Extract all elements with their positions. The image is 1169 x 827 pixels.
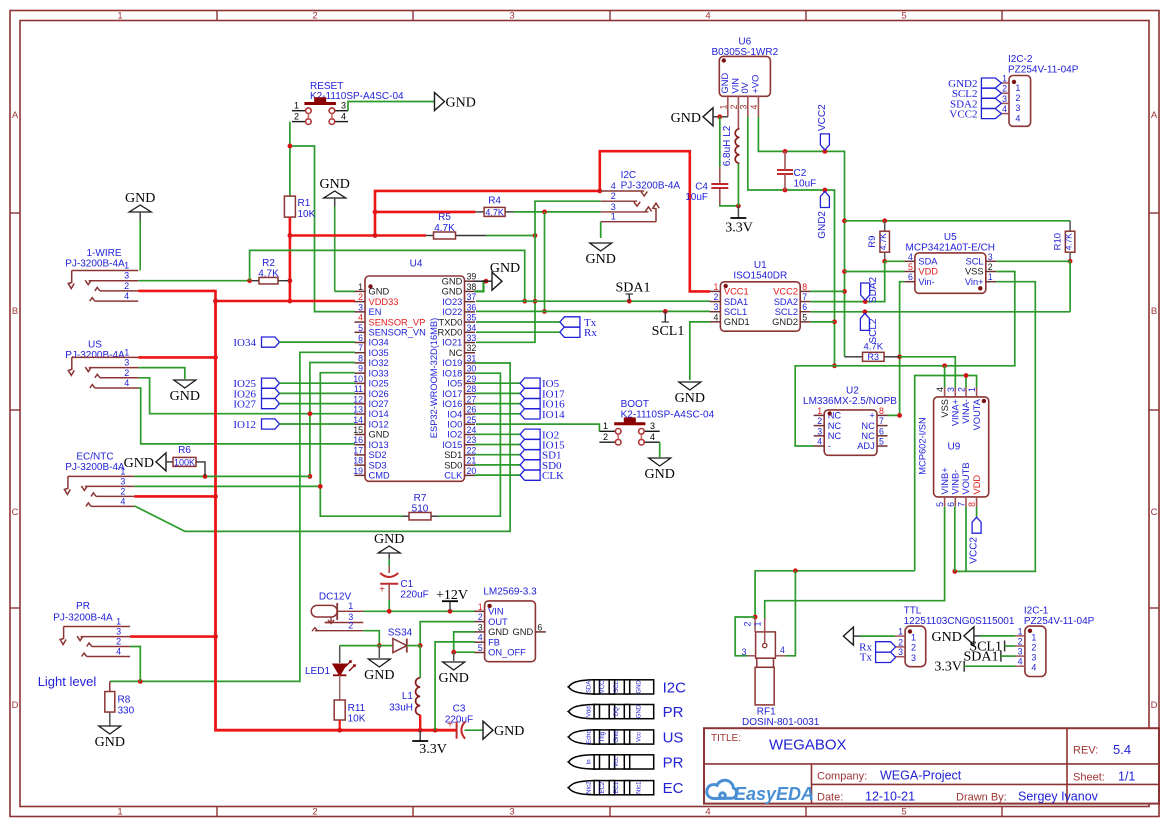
wire BOOT pin4 to GND: [659, 442, 661, 457]
wire SDA2 net: [811, 261, 885, 304]
svg-text:R7: R7: [414, 493, 427, 504]
svg-text:5: 5: [478, 643, 483, 653]
svg-text:U6: U6: [738, 37, 751, 48]
wire RXD0: [476, 331, 560, 333]
svg-text:MCP602-I/SN: MCP602-I/SN: [918, 417, 928, 474]
ground below U1: [675, 382, 705, 406]
wire RESET pin3 to GND: [348, 102, 435, 111]
net port IO16: [475, 398, 566, 410]
net port IO26: [233, 388, 355, 400]
cable plug EC: [568, 780, 683, 797]
svg-text:GND: GND: [645, 467, 675, 482]
wire VOUTA to VINA- feedback: [915, 373, 977, 571]
svg-text:2: 2: [743, 621, 753, 626]
svg-text:4: 4: [705, 807, 710, 818]
capacitor C1 220uF: [379, 566, 429, 611]
svg-text:Drawn By:: Drawn By:: [956, 792, 1007, 804]
ground flag right of C3: [483, 721, 524, 739]
svg-text:PR: PR: [663, 754, 684, 771]
wire IO33 / EC pin3 / R7: [134, 373, 403, 517]
svg-text:BOOT: BOOT: [621, 399, 649, 410]
svg-text:IO32: IO32: [369, 358, 389, 368]
svg-text:SS34: SS34: [388, 628, 413, 639]
svg-text:3: 3: [911, 653, 916, 663]
svg-text:SENSOR_VP: SENSOR_VP: [369, 317, 426, 327]
svg-text:10K: 10K: [298, 209, 316, 220]
svg-text:4.7K: 4.7K: [485, 207, 504, 217]
wire IO32 / US pin2 / EC pin1: [138, 363, 355, 479]
svg-text:5: 5: [935, 502, 945, 507]
svg-text:GND: GND: [720, 73, 730, 94]
svg-text:VDD: VDD: [972, 475, 982, 495]
svg-text:ADJ: ADJ: [857, 441, 875, 451]
svg-text:SCL: SCL: [966, 257, 984, 267]
wire VCC2 rail: [845, 218, 1071, 223]
diode SS34: [388, 628, 420, 653]
svg-text:Vin-: Vin-: [918, 277, 934, 287]
svg-text:3: 3: [478, 622, 483, 632]
svg-text:9: 9: [358, 364, 363, 374]
svg-text:GND: GND: [374, 532, 404, 547]
inductor L2 6.8uH: [722, 117, 740, 206]
svg-text:4.7K: 4.7K: [434, 223, 455, 234]
svg-text:4: 4: [358, 313, 363, 323]
net port Rx: [560, 327, 597, 339]
connector TTL 12251103CNG0S115001: [895, 606, 1015, 667]
svg-text:Trig: Trig: [600, 732, 606, 742]
svg-text:D: D: [12, 700, 19, 711]
connector US PJ-3200B-4A: [65, 340, 138, 389]
net flag SDA2: [861, 277, 879, 304]
net flag GND2: [817, 192, 830, 239]
svg-text:R9: R9: [867, 236, 878, 248]
svg-text:IO5: IO5: [447, 379, 462, 389]
svg-text:8: 8: [967, 502, 977, 507]
net label SDA1 at I2C-1: [963, 650, 1015, 665]
svg-text:3: 3: [509, 11, 514, 22]
capacitor C3 220uF: [445, 704, 483, 739]
svg-text:PJ-3200B-4A: PJ-3200B-4A: [65, 462, 125, 473]
svg-text:In: In: [587, 759, 593, 764]
svg-text:2: 2: [1031, 642, 1036, 652]
svg-text:IO21: IO21: [442, 338, 462, 348]
resistor R7 510: [403, 493, 438, 520]
svg-text:SCL: SCL: [614, 680, 620, 692]
svg-text:NC: NC: [861, 431, 875, 441]
svg-text:GND: GND: [124, 456, 154, 471]
svg-text:PZ254V-11-04P: PZ254V-11-04P: [1008, 65, 1079, 76]
svg-text:IO18: IO18: [442, 368, 462, 378]
svg-text:-: -: [828, 441, 831, 451]
svg-text:2: 2: [1018, 637, 1023, 647]
svg-text:4: 4: [749, 104, 759, 109]
svg-text:Tx: Tx: [860, 652, 873, 664]
svg-text:2: 2: [713, 292, 718, 302]
svg-text:2: 2: [116, 637, 121, 647]
svg-text:SDA2: SDA2: [868, 277, 879, 304]
svg-text:2: 2: [294, 112, 299, 122]
svg-text:IO27: IO27: [233, 399, 256, 411]
svg-text:2: 2: [1015, 93, 1020, 103]
svg-text:SD2: SD2: [369, 450, 387, 460]
wire 3.3V trunk (red): [213, 301, 457, 733]
svg-text:2: 2: [957, 387, 967, 392]
svg-text:TITLE:: TITLE:: [711, 733, 741, 744]
svg-text:IO13: IO13: [369, 440, 389, 450]
wire U4 pin1 GND: [335, 290, 355, 292]
svg-text:SDA1: SDA1: [963, 650, 998, 665]
svg-text:Ntc1: Ntc1: [636, 781, 642, 794]
svg-text:4: 4: [650, 432, 655, 442]
svg-text:C3: C3: [453, 704, 466, 715]
net label SDA1: [615, 281, 650, 302]
svg-text:Light level: Light level: [38, 674, 97, 689]
svg-text:1: 1: [348, 601, 353, 611]
svg-text:4.7K: 4.7K: [1065, 233, 1074, 250]
svg-text:1: 1: [1031, 632, 1036, 642]
wire GND/ON_OFF of LM2569: [451, 632, 474, 661]
svg-text:L1: L1: [402, 691, 414, 702]
svg-text:TXD0: TXD0: [439, 317, 463, 327]
svg-text:1: 1: [817, 406, 822, 416]
svg-text:Date:: Date:: [817, 792, 843, 804]
svg-text:U9: U9: [948, 442, 961, 453]
svg-text:Vdd: Vdd: [587, 706, 593, 717]
svg-text:3: 3: [742, 647, 747, 657]
svg-text:2: 2: [124, 281, 129, 291]
svg-text:I2C: I2C: [621, 170, 637, 181]
svg-text:Vcc: Vcc: [636, 732, 642, 742]
wire U4 pin39 to GND: [475, 280, 493, 282]
svg-text:LM2569-3.3: LM2569-3.3: [483, 587, 537, 598]
svg-text:EC/NTC: EC/NTC: [76, 452, 113, 463]
svg-text:IO34: IO34: [233, 337, 256, 349]
svg-text:SCL1: SCL1: [652, 324, 685, 339]
wire SDA to U5: [885, 260, 905, 262]
svg-text:GND: GND: [636, 704, 642, 718]
svg-text:IO19: IO19: [442, 358, 462, 368]
net flag VCC2 (top): [817, 104, 830, 150]
svg-text:CMD: CMD: [369, 471, 390, 481]
wire LED branch: [340, 646, 380, 663]
wire OUT to switch node: [418, 622, 475, 648]
svg-text:C2: C2: [794, 168, 807, 179]
svg-text:IO0: IO0: [447, 419, 462, 429]
svg-text:SD1: SD1: [444, 450, 462, 460]
svg-text:5.4: 5.4: [1113, 742, 1131, 757]
push button RESET (K2-1110SP-A4SC-04): [292, 81, 404, 124]
net port Rx at TTL: [859, 641, 895, 653]
svg-text:D: D: [1151, 700, 1158, 711]
svg-text:Company:: Company:: [817, 771, 867, 783]
svg-text:IO4: IO4: [447, 409, 462, 419]
svg-text:31: 31: [467, 353, 477, 363]
svg-text:2: 2: [348, 620, 353, 630]
svg-text:VCC: VCC: [600, 680, 606, 693]
svg-text:1: 1: [1002, 74, 1007, 84]
wire DC12V pin2 to GND node: [363, 631, 393, 658]
svg-text:1: 1: [124, 347, 129, 357]
svg-text:VINB+: VINB+: [940, 467, 950, 494]
IC U2 LM336MX-2.5/NOPB: [803, 386, 897, 456]
svg-text:4: 4: [1015, 113, 1020, 123]
svg-text:FB: FB: [488, 637, 500, 647]
net port IO25: [233, 378, 355, 390]
wire US pin1 red: [138, 355, 218, 360]
svg-text:7: 7: [957, 502, 967, 507]
svg-text:GND: GND: [586, 252, 616, 267]
svg-text:GND: GND: [636, 680, 642, 694]
svg-text:C1: C1: [400, 579, 413, 590]
svg-text:VINB-: VINB-: [951, 470, 961, 495]
svg-text:R8: R8: [118, 695, 131, 706]
svg-text:MCP3421A0T-E/CH: MCP3421A0T-E/CH: [906, 243, 995, 254]
svg-text:3: 3: [1018, 647, 1023, 657]
svg-text:2: 2: [911, 643, 916, 653]
svg-text:U1: U1: [754, 260, 767, 271]
svg-text:4: 4: [817, 437, 822, 447]
svg-text:R4: R4: [488, 196, 501, 207]
svg-text:5: 5: [901, 807, 906, 818]
svg-text:B: B: [1151, 306, 1157, 317]
wire IO18 to R7: [438, 373, 500, 516]
svg-text:25: 25: [467, 415, 477, 425]
svg-text:7: 7: [879, 416, 884, 426]
svg-text:3: 3: [898, 647, 903, 657]
svg-text:4.7K: 4.7K: [864, 342, 884, 353]
wire SCL to R10: [996, 260, 1070, 262]
svg-text:37: 37: [467, 292, 477, 302]
svg-text:1: 1: [967, 387, 977, 392]
wire IO35 to PR pin2 (Light level): [110, 352, 355, 684]
svg-text:33uH: 33uH: [389, 703, 413, 714]
net port IO34: [233, 337, 355, 349]
svg-text:5: 5: [802, 312, 807, 322]
svg-text:IO33: IO33: [369, 368, 389, 378]
svg-text:R5: R5: [438, 212, 451, 223]
resistor R5 4.7K: [426, 212, 486, 239]
svg-text:VINA-: VINA-: [961, 399, 971, 424]
svg-text:11: 11: [354, 384, 363, 394]
svg-text:5: 5: [908, 262, 913, 272]
resistor R3 4.7K: [845, 342, 900, 363]
svg-text:Ntc2: Ntc2: [587, 781, 593, 794]
svg-text:SDA: SDA: [587, 681, 593, 693]
svg-text:36: 36: [467, 302, 477, 312]
svg-text:1: 1: [117, 11, 122, 22]
svg-text:4.7K: 4.7K: [879, 233, 888, 250]
svg-text:4: 4: [120, 496, 125, 506]
svg-text:1: 1: [358, 282, 363, 292]
svg-text:2: 2: [120, 486, 125, 496]
svg-text:3: 3: [713, 302, 718, 312]
svg-text:100K: 100K: [174, 457, 195, 467]
svg-text:1: 1: [988, 272, 993, 282]
svg-text:GND: GND: [442, 276, 463, 286]
net port SD1: [475, 450, 562, 462]
wire RESET pin2 / R1 top / EN net: [288, 122, 356, 312]
svg-text:2: 2: [611, 191, 616, 201]
resistor R4 4.7K: [475, 196, 514, 218]
svg-text:EasyEDA: EasyEDA: [734, 784, 814, 804]
svg-text:GND: GND: [932, 630, 962, 645]
svg-text:DOSIN-801-0031: DOSIN-801-0031: [742, 717, 820, 728]
svg-text:34: 34: [467, 323, 477, 333]
svg-text:US: US: [88, 340, 102, 351]
svg-text:3: 3: [946, 387, 956, 392]
svg-text:39: 39: [467, 272, 477, 282]
svg-text:SD0: SD0: [444, 460, 462, 470]
svg-text:3: 3: [358, 302, 363, 312]
svg-text:SDA2: SDA2: [774, 297, 798, 307]
net port IO2: [475, 429, 560, 441]
wire FB to rail: [435, 642, 474, 730]
resistor R1 10K: [284, 196, 315, 220]
svg-text:CLK: CLK: [444, 471, 463, 481]
net flag VCC2 at I2C-2: [949, 109, 1001, 121]
svg-text:4: 4: [1018, 657, 1023, 667]
svg-text:VOUTA: VOUTA: [972, 398, 982, 430]
wire VDD to U5: [845, 271, 905, 273]
wire VSS drop to U9: [944, 366, 946, 388]
svg-text:GND: GND: [488, 627, 509, 637]
svg-text:8: 8: [802, 282, 807, 292]
svg-text:RF1: RF1: [757, 707, 776, 718]
svg-text:3: 3: [650, 421, 655, 431]
svg-text:NC: NC: [828, 431, 842, 441]
svg-text:Gnd: Gnd: [614, 731, 620, 742]
svg-text:3: 3: [738, 104, 748, 109]
svg-text:GND2: GND2: [817, 211, 828, 239]
svg-text:PJ-3200B-4A: PJ-3200B-4A: [65, 350, 125, 361]
svg-text:GND: GND: [675, 391, 705, 406]
svg-text:IO14: IO14: [542, 409, 565, 421]
ground below BOOT: [645, 458, 675, 482]
svg-text:GND: GND: [320, 177, 350, 192]
net flag GND2 at I2C-2: [948, 78, 1001, 90]
wire 3.3V rail to R5: [290, 234, 426, 237]
net port IO27: [233, 399, 355, 411]
svg-text:2: 2: [603, 432, 608, 442]
wire PR pin3 red: [130, 635, 215, 638]
ground below R8: [95, 726, 125, 750]
svg-text:IO34: IO34: [369, 338, 389, 348]
svg-text:1: 1: [1015, 83, 1020, 93]
svg-text:PR: PR: [663, 704, 684, 721]
svg-text:ISO1540DR: ISO1540DR: [733, 271, 787, 282]
wire SCL drop to SCL1: [542, 212, 547, 314]
svg-text:R10: R10: [1053, 233, 1064, 250]
svg-text:DC12V: DC12V: [319, 592, 352, 603]
ground flag at TTL pin1: [843, 627, 895, 645]
svg-text:VCC2: VCC2: [773, 287, 798, 297]
wire PR pin2 to Light level: [130, 647, 140, 682]
svg-text:ESP32-WROOM-32D(16MB): ESP32-WROOM-32D(16MB): [429, 318, 439, 438]
net port IO12: [233, 419, 355, 431]
svg-text:3: 3: [124, 271, 129, 281]
svg-text:GND: GND: [369, 430, 390, 440]
svg-text:VCC2: VCC2: [817, 104, 828, 131]
svg-text:7: 7: [802, 292, 807, 302]
svg-text:4: 4: [478, 633, 483, 643]
connector DC12V barrel jack: [311, 592, 363, 632]
svg-text:IO27: IO27: [369, 399, 389, 409]
svg-text:4: 4: [713, 312, 718, 322]
wire SDA1: [476, 299, 710, 304]
cable plug PR2: [568, 754, 683, 771]
power +12V: [436, 588, 468, 612]
svg-text:8: 8: [358, 353, 363, 363]
svg-text:U4: U4: [410, 259, 423, 270]
connector I2C-2 PZ254V-11-04P: [1001, 54, 1078, 126]
svg-text:Sheet:: Sheet:: [1073, 772, 1105, 784]
svg-text:A: A: [12, 110, 19, 121]
svg-text:30: 30: [467, 364, 477, 374]
svg-text:2: 2: [312, 807, 317, 818]
IC U6 B0305S-1WR2: [711, 37, 778, 117]
svg-text:EC: EC: [663, 780, 684, 797]
svg-text:SDA1: SDA1: [724, 297, 748, 307]
svg-text:5: 5: [901, 11, 906, 22]
svg-text:3.3V: 3.3V: [419, 742, 447, 757]
resistor R11 10K: [334, 700, 366, 730]
svg-text:4: 4: [1002, 104, 1007, 114]
net port IO5: [475, 378, 560, 390]
svg-text:IO25: IO25: [369, 379, 389, 389]
antenna RF1 DOSIN-801-0031: [742, 618, 820, 728]
svg-text:GND2: GND2: [772, 317, 798, 327]
svg-text:1: 1: [294, 101, 299, 111]
svg-text:B: B: [12, 306, 18, 317]
svg-text:SDA: SDA: [918, 257, 938, 267]
svg-text:IO15: IO15: [442, 440, 462, 450]
wire IO19 to EC pin4: [134, 363, 510, 531]
svg-text:IO35: IO35: [369, 348, 389, 358]
wire DC12V pin1 to VIN: [363, 609, 474, 614]
svg-text:3.3V: 3.3V: [725, 221, 753, 236]
resistor R2 4.7K: [252, 258, 288, 284]
svg-text:IO12: IO12: [369, 419, 389, 429]
svg-text:C: C: [1151, 507, 1158, 518]
wire RF1 net: [735, 568, 915, 655]
svg-text:6: 6: [946, 502, 956, 507]
wire VSS net / U2 pin4: [795, 272, 1015, 447]
svg-text:6: 6: [537, 622, 542, 632]
svg-text:3: 3: [817, 426, 822, 436]
svg-text:GND1: GND1: [724, 317, 750, 327]
svg-text:VDD33: VDD33: [369, 297, 399, 307]
svg-text:VOUTB: VOUTB: [961, 462, 971, 494]
svg-text:1: 1: [752, 621, 762, 626]
svg-text:6: 6: [879, 426, 884, 436]
net port CLK: [475, 470, 565, 482]
svg-text:2: 2: [312, 11, 317, 22]
wire 0V to GND2 net: [748, 117, 837, 368]
wire I2C pin1 to GND: [600, 222, 602, 238]
svg-text:U5: U5: [944, 232, 957, 243]
connector 1-WIRE PJ-3200B-4A: [65, 248, 138, 301]
svg-text:R1: R1: [298, 198, 311, 209]
svg-text:PJ-3200B-4A: PJ-3200B-4A: [65, 259, 125, 270]
ground flag at I2C-1 pin1: [932, 627, 1016, 645]
net label SCL1 at I2C-1: [969, 640, 1015, 655]
svg-text:1: 1: [611, 212, 616, 222]
text Light level: [38, 674, 97, 689]
net port Tx at TTL: [860, 652, 896, 664]
ground below US: [170, 380, 200, 404]
wire U6 GND / C4 / 3.3V node: [720, 117, 741, 209]
svg-text:VSS: VSS: [965, 267, 984, 277]
